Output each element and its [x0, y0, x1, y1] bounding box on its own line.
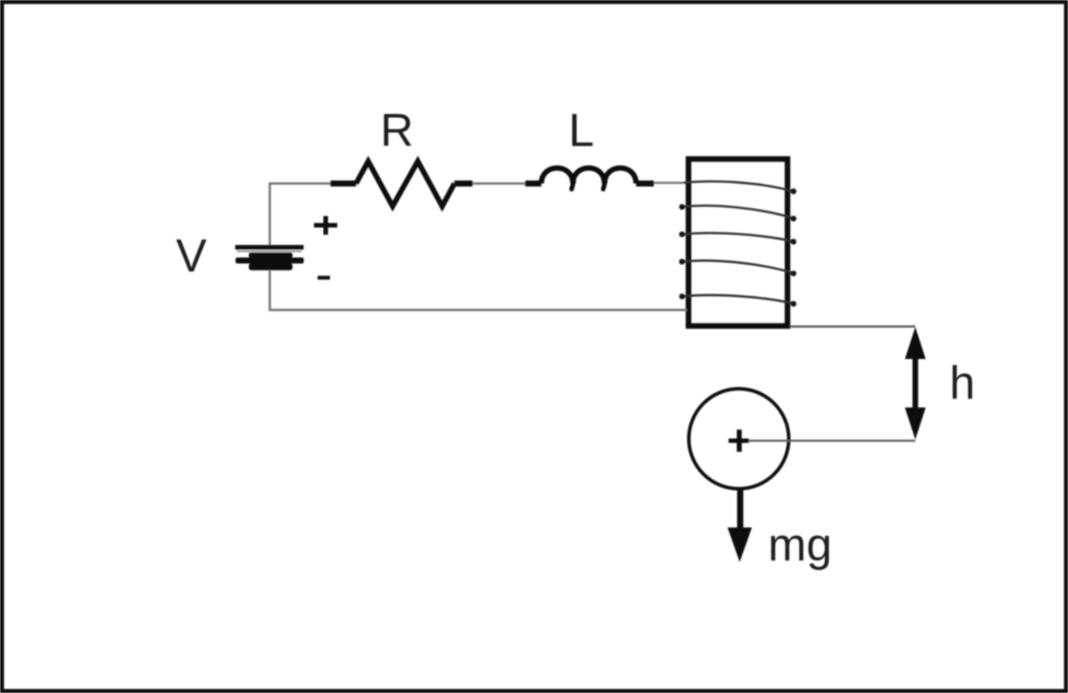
ball center mark [729, 430, 749, 452]
wire battery positive lead to resistor [270, 184, 332, 246]
svg-text:h: h [950, 356, 976, 408]
wire bottom rail [270, 270, 687, 310]
wire electromagnet to h dimension [790, 325, 915, 327]
winding 1 [684, 181, 793, 191]
svg-text:R: R [380, 104, 413, 156]
wire inductor to electromagnet [654, 182, 688, 184]
battery voltage source V [235, 245, 304, 270]
force arrow mg [728, 489, 752, 562]
wire resistor to inductor [473, 182, 527, 184]
dimension arrow h double-headed [905, 327, 926, 440]
winding wrap junction dots [679, 188, 796, 306]
ball levitated mass [689, 389, 789, 489]
svg-text:V: V [176, 230, 207, 282]
electromagnet core [689, 159, 788, 326]
winding 2 [681, 206, 796, 219]
svg-text:L: L [569, 104, 595, 156]
plus terminal marking [314, 216, 337, 235]
inductor L [525, 168, 654, 189]
resistor R [331, 161, 473, 206]
minus terminal marking [318, 276, 330, 280]
winding 5 [681, 295, 796, 304]
winding 4 [681, 261, 796, 274]
winding 3 [681, 233, 796, 242]
svg-text:mg: mg [768, 519, 832, 571]
wire ball center to h dimension [749, 440, 916, 442]
